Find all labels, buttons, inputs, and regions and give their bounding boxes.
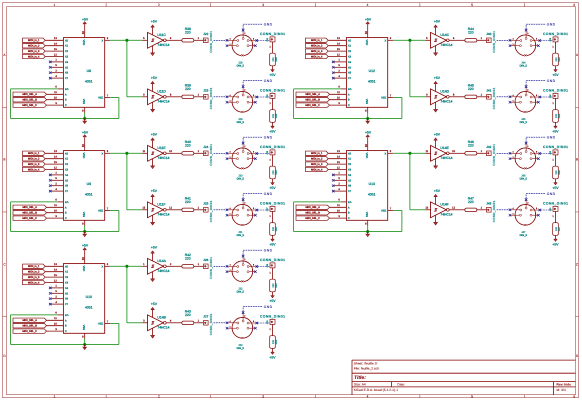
svg-text:16: 16 [81,144,85,148]
wire resistor R53 to +5V [272,348,274,352]
no-connect DIN J29 top [242,85,245,88]
wire MIDI_in_1 to pin X0 [328,39,346,41]
hierarchical label MIDI_in_3 [23,162,46,166]
note line J26 to DIN [214,265,227,267]
svg-text:Title:: Title: [354,375,366,381]
pin X4 stub [51,287,64,289]
svg-text:220: 220 [272,283,275,288]
no-connect DIN J28 right lower [254,44,257,47]
wire gate U14D output to resistor R45 [449,96,465,98]
pin X7 stub [334,77,347,79]
wire resistor R56 to +5V [555,179,557,183]
no-connect X4 [49,174,52,177]
svg-text:220: 220 [272,57,275,62]
svg-text:X5: X5 [65,179,69,182]
hierarchical label MIDI_in_2 [306,44,329,48]
hierarchical label MIDI_SEL_A [13,318,47,322]
svg-text:X5: X5 [65,66,69,69]
hierarchical label MIDI_in_3 [306,162,329,166]
no-connect X5 [332,179,335,182]
resistor R41 220 [182,197,194,212]
svg-text:B: B [3,158,5,162]
svg-text:X6: X6 [348,72,352,75]
wire ground loop bottom [11,118,119,120]
svg-text:B: B [65,212,67,215]
wire X output to gate U14A input [142,265,147,267]
wire MIDI_SEL_B to IC [47,212,64,214]
svg-text:220: 220 [468,200,474,204]
svg-text:R52: R52 [275,283,278,288]
frame column tick bottom [210,395,212,398]
svg-text:R57: R57 [558,226,561,231]
svg-text:+5V: +5V [151,245,158,249]
ground below U10 [82,347,87,350]
resistor R48 220 pull-up [270,53,278,66]
power +5V below R48 [269,70,276,78]
pin VSS 8 stub [84,220,86,225]
note line DIN J30 to connector J36 [258,153,270,155]
svg-text:X: X [101,152,103,155]
svg-text:220: 220 [185,31,191,35]
ground at gate U11F [150,215,155,225]
power +5V at gate U14A [151,245,158,260]
power +5V at gate U14C [434,19,441,34]
no-connect X7 [332,190,335,193]
resistor R43 220 [182,310,194,325]
no-connect DIN J47 left lower [509,214,512,217]
svg-text:U11D: U11D [157,90,166,94]
svg-text:MIDI_in_3: MIDI_in_3 [28,276,40,279]
hierarchical label MIDI_in_4 [23,167,46,171]
DIN connector J44 DIN_5 [511,31,540,68]
connector J22 CONN_DIN01 [203,31,213,53]
power +5V VDD U12 [365,17,372,24]
svg-text:X4: X4 [348,61,352,64]
hierarchical label MIDI_SEL_B [13,324,47,328]
note line DIN J30 to GND [243,137,263,142]
svg-text:MIDI_in_4: MIDI_in_4 [311,55,323,58]
pin X6 stub [51,72,64,74]
wire MIDI_SEL_A to IC [47,93,64,95]
ground at gate U14E [433,159,438,169]
note line DIN J44 to connector J48 [541,40,553,42]
svg-text:MIDI_in_1: MIDI_in_1 [311,152,323,155]
svg-text:DIN_5: DIN_5 [237,178,245,181]
svg-text:X6: X6 [65,298,69,301]
svg-text:4051: 4051 [85,80,93,84]
svg-text:X: X [384,152,386,155]
pin X 3 stub of U12 [388,39,394,41]
note line J40 to DIN [497,39,510,41]
wire gate U11E output to resistor R40 [166,152,182,154]
svg-text:DIN_5: DIN_5 [520,121,528,124]
svg-text:74HC14: 74HC14 [440,212,452,216]
wire Inh to ground loop [294,201,341,203]
svg-text:220: 220 [555,57,558,62]
power +5V below R50 [269,183,276,191]
svg-text:X1: X1 [348,45,352,48]
svg-text:74HC14: 74HC14 [157,325,169,329]
pin VEE 7 stub [388,210,394,212]
svg-text:220: 220 [272,226,275,231]
wire MIDI_in_3 to pin X2 [328,163,346,165]
svg-text:J26: J26 [203,258,208,262]
power +5V below R55 [552,126,559,134]
svg-text:16: 16 [364,144,368,148]
pin VSS 8 stub [84,107,86,112]
svg-text:74HC14: 74HC14 [157,99,169,103]
wire resistor R41 to connector J25 [194,209,204,211]
DIN connector J31 DIN_5 [228,200,257,237]
power +5V at gate U14B [151,302,158,317]
resistor R40 220 [182,140,194,155]
svg-text:74HC14: 74HC14 [157,43,169,47]
svg-text:220: 220 [272,339,275,344]
note line DIN J33 to connector J39 [258,322,270,324]
svg-text:GND: GND [547,22,556,26]
no-connect DIN J33 right upper [256,322,258,325]
svg-text:Size: A4: Size: A4 [354,382,366,386]
hierarchical label MIDI_in_2 [23,44,46,48]
inverter gate U14D 74HC14 [426,89,455,105]
IC U10 4051 [63,264,104,334]
svg-text:+5V: +5V [434,19,441,23]
wire X fanout to second gate [410,96,425,98]
no-connect DIN J46 top [525,142,528,145]
frame row tick left [3,316,7,318]
wire MIDI_in_4 to pin X3 [328,56,346,58]
svg-text:U11E: U11E [157,146,166,150]
svg-text:+5V: +5V [82,130,89,134]
pin X 3 stub of U10 [105,265,111,267]
no-connect DIN J45 top [525,85,528,88]
svg-text:U14F: U14F [440,203,448,207]
pin VEE 7 stub [105,210,111,212]
no-connect DIN J29 right upper [256,96,258,99]
svg-text:VSS: VSS [82,325,85,331]
no-connect X7 [49,77,52,80]
no-connect DIN J45 left lower [509,101,512,104]
wire gate U14B output to resistor R43 [166,322,182,324]
no-connect DIN J33 left lower [226,327,229,330]
svg-text:File: feuille_2.sch: File: feuille_2.sch [354,367,380,371]
svg-text:X: X [384,39,386,42]
svg-text:R51: R51 [275,226,278,231]
wire gate U14C output to resistor R44 [449,39,465,41]
junction ground U10 [83,343,86,346]
hierarchical label MIDI_in_3 [23,275,46,279]
pin X6 stub [51,298,64,300]
ground below U9 [82,234,87,237]
wire resistor R38 to connector J22 [194,39,204,41]
wire MIDI_SEL_B to IC [47,325,64,327]
ground at gate U11E [150,159,155,169]
svg-text:74HC14: 74HC14 [440,99,452,103]
svg-text:R50: R50 [275,170,278,175]
svg-text:CONN_DIN01: CONN_DIN01 [260,258,285,262]
wire MIDI_in_2 to pin X1 [328,45,346,47]
svg-text:J43: J43 [486,202,491,206]
svg-text:VDD: VDD [365,153,368,159]
wire VDD pin 16 of U12 [367,24,369,37]
wire ground loop left vertical [293,89,295,119]
svg-text:C: C [65,330,67,333]
inverter gate U11D 74HC14 [143,89,172,105]
wire connector J37 to resistor R51 [272,211,274,222]
svg-text:X3: X3 [65,56,69,59]
junction X fanout [126,265,129,268]
svg-text:220: 220 [555,226,558,231]
connector J39 CONN_DIN01 [260,315,285,325]
svg-text:MIDI_in_3: MIDI_in_3 [311,50,323,53]
wire resistor R42 to connector J26 [194,265,204,267]
hierarchical label MIDI_SEL_A [13,205,47,209]
svg-text:X5: X5 [65,292,69,295]
pin X4 stub [334,61,347,63]
svg-text:VEE: VEE [98,210,103,213]
no-connect DIN J47 right upper [539,209,542,212]
wire resistor R51 to +5V [272,235,274,239]
frame column tick top [524,3,526,7]
no-connect DIN J32 top [242,255,245,258]
svg-text:GND: GND [264,248,273,252]
svg-text:R55: R55 [558,113,561,118]
svg-text:J49: J49 [549,94,552,99]
wire MIDI_SEL_C to IC [47,104,64,106]
wire MIDI_SEL_A to IC [330,93,347,95]
wire MIDI_in_3 to pin X2 [45,276,63,278]
inverter gate U14A 74HC14 [143,258,172,274]
svg-text:VEE: VEE [98,323,103,326]
svg-text:CONN_DIN01: CONN_DIN01 [492,87,496,109]
pin X6 stub [334,185,347,187]
wire X output to gate U14C input [425,39,430,41]
ground below U8 [82,121,87,124]
svg-text:DIN_5: DIN_5 [520,65,528,68]
no-connect DIN J29 right lower [254,101,257,104]
note line J42 to DIN [497,152,510,154]
junction ground U13 [366,230,369,233]
svg-text:KiCad E.D.A. kicad (5.1.2-1)-: KiCad E.D.A. kicad (5.1.2-1)-1 [354,388,399,392]
junction ground U8 [83,117,86,120]
no-connect DIN J30 top [242,142,245,145]
resistor R38 220 [182,27,194,42]
connector J27 CONN_DIN01 [203,313,213,335]
svg-text:CONN_DIN01: CONN_DIN01 [260,89,285,93]
svg-text:X5: X5 [348,179,352,182]
svg-text:A: A [348,93,350,96]
DIN connector J28 DIN_5 [228,31,257,68]
svg-text:X0: X0 [65,152,69,155]
svg-text:A: A [348,206,350,209]
svg-text:+5V: +5V [365,17,372,21]
svg-text:X: X [101,265,103,268]
hierarchical label MIDI_in_4 [23,54,46,58]
svg-text:J36: J36 [266,150,269,155]
power +5V below R52 [269,296,276,304]
frame column tick top [210,3,212,7]
hierarchical label MIDI_in_4 [306,54,329,58]
no-connect DIN J44 top [525,29,528,32]
svg-text:J41: J41 [486,89,491,93]
IC U8 4051 [63,38,104,108]
svg-text:4: 4 [367,3,369,7]
hierarchical label MIDI_in_2 [23,157,46,161]
svg-text:MIDI_SEL_B: MIDI_SEL_B [22,212,37,215]
svg-text:74HC14: 74HC14 [440,156,452,160]
no-connect DIN J28 left lower [226,44,229,47]
power +5V at gate U11F [151,189,158,204]
junction X fanout [126,152,129,155]
svg-text:MIDI_SEL_C: MIDI_SEL_C [305,104,320,107]
resistor R46 220 [465,140,477,155]
frame row tick right [576,211,579,213]
svg-text:CONN_DIN01: CONN_DIN01 [492,200,496,222]
wire connector J50 to resistor R56 [555,155,557,166]
svg-text:X6: X6 [65,185,69,188]
wire gate U14E output to resistor R46 [449,152,465,154]
svg-text:+5V: +5V [269,186,276,190]
ground at gate U14F [433,215,438,225]
pin VEE 7 stub [105,97,111,99]
ground at gate U14D [433,102,438,112]
resistor R53 220 pull-up [270,336,278,349]
svg-text:Date:: Date: [397,382,405,386]
svg-text:MIDI_in_1: MIDI_in_1 [28,39,40,42]
svg-text:MIDI_SEL_A: MIDI_SEL_A [22,206,37,209]
wire X output horizontal [110,265,142,267]
svg-text:CONN_DIN01: CONN_DIN01 [209,257,213,279]
svg-text:GND: GND [264,305,273,309]
wire X output to gate U14F input [425,209,430,211]
no-connect DIN J33 right lower [254,327,257,330]
wire ground loop left vertical [293,202,295,232]
DIN connector J32 DIN_5 [228,257,257,294]
frame column tick bottom [524,395,526,398]
svg-text:A: A [65,206,67,209]
no-connect DIN J32 left lower [226,270,229,273]
wire X output to gate U11E input [142,152,147,154]
svg-text:R53: R53 [275,339,278,344]
svg-text:+5V: +5V [552,243,559,247]
pin VSS 8 stub [84,333,86,338]
wire ground loop left vertical [10,315,12,345]
junction X fanout [126,39,129,42]
svg-text:J39: J39 [266,320,269,325]
no-connect X6 [49,184,52,187]
note line DIN J47 to connector J51 [541,209,553,211]
wire MIDI_in_1 to pin X0 [328,152,346,154]
no-connect X4 [49,287,52,290]
note line DIN J32 to connector J38 [258,266,270,268]
no-connect DIN J31 right upper [256,209,258,212]
wire MIDI_SEL_B to IC [330,99,347,101]
svg-text:CONN_DIN01: CONN_DIN01 [209,144,213,166]
no-connect X4 [332,61,335,64]
power +5V below R54 [552,70,559,78]
wire MIDI_SEL_A to IC [47,319,64,321]
pin X5 stub [51,66,64,68]
wire X fanout to second gate [127,322,142,324]
pin X5 stub [334,179,347,181]
wire MIDI_in_2 to pin X1 [45,45,63,47]
wire VDD pin 16 of U13 [367,137,369,150]
svg-text:J23: J23 [203,89,208,93]
pin X7 stub [51,303,64,305]
power +5V at gate U11C [151,19,158,34]
frame row tick left [3,211,7,213]
svg-text:X2: X2 [348,163,352,166]
svg-text:X4: X4 [65,61,69,64]
svg-text:U14B: U14B [157,316,166,320]
wire MIDI_in_4 to pin X3 [45,282,63,284]
note line J43 to DIN [497,209,510,211]
wire ground loop left vertical [10,89,12,119]
svg-text:+5V: +5V [552,130,559,134]
IC U9 4051 [63,151,104,221]
svg-text:VSS: VSS [365,212,368,218]
no-connect DIN J28 left upper [226,39,229,42]
wire resistor R54 to +5V [555,66,557,70]
wire gate U11F output to resistor R41 [166,209,182,211]
wire MIDI_in_3 to pin X2 [45,163,63,165]
frame column tick bottom [419,395,421,398]
wire MIDI_in_1 to pin X0 [45,39,63,41]
pin X7 stub [334,190,347,192]
note line DIN J47 to GND [526,194,546,199]
note line DIN J28 to GND [243,24,263,29]
wire ground loop right vertical to VEE [393,98,402,119]
svg-text:+5V: +5V [269,130,276,134]
power +5V below R57 [552,239,559,247]
power +5V below R56 [552,183,559,191]
pin X5 stub [51,179,64,181]
no-connect DIN J30 left lower [226,157,229,160]
svg-text:U10: U10 [86,295,92,299]
connector J26 CONN_DIN01 [203,257,213,279]
svg-text:U14D: U14D [440,90,449,94]
inverter gate U14E 74HC14 [425,145,455,161]
svg-text:A: A [65,319,67,322]
no-connect DIN J46 left upper [509,152,512,155]
no-connect DIN J47 right lower [537,214,540,217]
wire resistor R40 to connector J24 [194,152,204,154]
svg-text:74HC14: 74HC14 [157,156,169,160]
resistor R39 220 [182,84,194,99]
wire MIDI_in_4 to pin X3 [45,56,63,58]
svg-text:J50: J50 [549,150,552,155]
svg-text:220: 220 [468,87,474,91]
wire resistor R48 to +5V [272,66,274,70]
junction X fanout [409,152,412,155]
svg-text:CONN_DIN01: CONN_DIN01 [543,202,568,206]
svg-text:C: C [348,217,350,220]
svg-text:VSS: VSS [82,212,85,218]
svg-text:220: 220 [272,113,275,118]
svg-text:Inh: Inh [65,88,69,91]
power +5V below R53 [269,352,276,360]
svg-text:GND: GND [547,79,556,83]
svg-text:Inh: Inh [65,201,69,204]
no-connect DIN J45 right upper [539,96,542,99]
inverter gate U14C 74HC14 [426,32,455,48]
svg-text:X3: X3 [65,282,69,285]
svg-text:MIDI_SEL_B: MIDI_SEL_B [22,99,37,102]
svg-text:CONN_DIN01: CONN_DIN01 [492,31,496,53]
svg-text:MIDI_in_2: MIDI_in_2 [28,271,40,274]
connector J37 CONN_DIN01 [260,202,285,212]
no-connect DIN J47 top [525,198,528,201]
